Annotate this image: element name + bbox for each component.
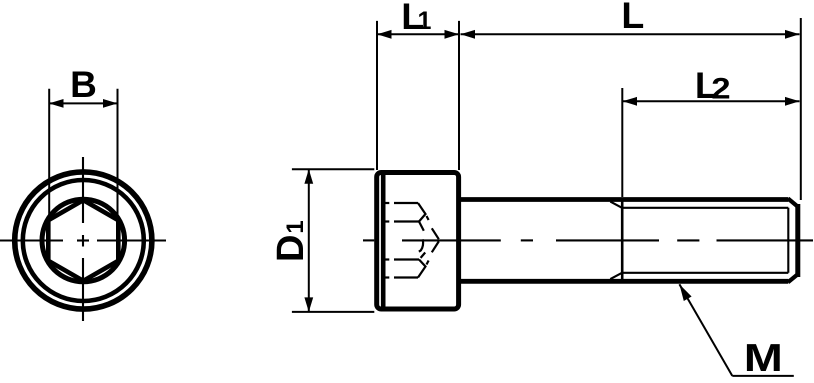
svg-text:L: L bbox=[621, 0, 644, 36]
svg-text:1: 1 bbox=[282, 220, 309, 233]
svg-text:B: B bbox=[70, 64, 97, 105]
svg-text:D: D bbox=[270, 235, 312, 262]
svg-text:1: 1 bbox=[418, 7, 432, 35]
svg-text:M: M bbox=[744, 337, 783, 380]
svg-text:2: 2 bbox=[711, 72, 730, 105]
